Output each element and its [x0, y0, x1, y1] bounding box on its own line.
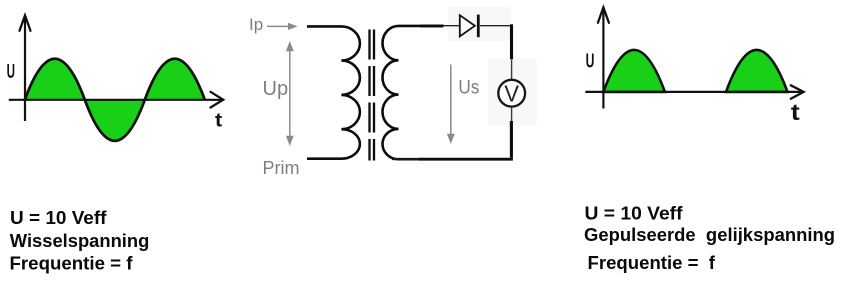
- left graph t-axis: [9, 99, 221, 101]
- wire bottom secondary: [419, 158, 513, 161]
- svg-text:Ip: Ip: [249, 15, 263, 34]
- left graph U-axis: [24, 16, 26, 121]
- faint scan box behind diode: [448, 7, 511, 41]
- wire out of voltmeter (thin): [511, 107, 513, 121]
- svg-text:Frequentie = f: Frequentie = f: [588, 252, 716, 273]
- diode D1: [460, 15, 475, 36]
- svg-text:Prim: Prim: [263, 158, 300, 178]
- transformer T1 core (laminated, two dashed lines): [368, 30, 370, 161]
- Ip current arrow: [267, 25, 290, 27]
- right graph U-axis: [602, 8, 604, 109]
- sine wave outline: [25, 59, 205, 141]
- Us voltage arrow: [450, 65, 452, 137]
- svg-text:Frequentie = f: Frequentie = f: [10, 253, 134, 274]
- transformer T1 secondary winding: [382, 26, 443, 159]
- svg-text:Us: Us: [458, 76, 479, 98]
- voltmeter V1: [498, 80, 525, 107]
- svg-text:Gepulseerde gelijkspanning: Gepulseerde gelijkspanning: [584, 224, 835, 245]
- right graph t-axis: [585, 91, 801, 93]
- svg-text:t: t: [215, 109, 223, 131]
- sine wave left (AC waveform, green fill): [25, 59, 205, 141]
- transformer T1 primary winding: [307, 26, 360, 158]
- wire secondary top to diode: [420, 24, 444, 27]
- right waveform hump 2 (rectified, green): [726, 50, 788, 92]
- svg-text:Wisselspanning: Wisselspanning: [10, 230, 150, 251]
- svg-text:U = 10 Veff: U = 10 Veff: [10, 207, 107, 228]
- right waveform hump 1 (rectified, green): [603, 50, 665, 92]
- svg-text:U = 10 Veff: U = 10 Veff: [585, 203, 684, 224]
- wire right vertical (bottom, thick): [510, 121, 513, 158]
- svg-text:U: U: [7, 61, 15, 83]
- faint scan box behind voltmeter: [488, 59, 537, 125]
- svg-text:U: U: [586, 50, 595, 72]
- wire into voltmeter (thin): [511, 60, 513, 81]
- wire diode to corner: [480, 25, 510, 27]
- wire right vertical (top, thick): [510, 24, 513, 59]
- svg-text:t: t: [791, 99, 800, 125]
- svg-text:V: V: [504, 80, 519, 106]
- svg-text:Up: Up: [263, 78, 289, 100]
- Up voltage arrow (double headed): [289, 49, 291, 138]
